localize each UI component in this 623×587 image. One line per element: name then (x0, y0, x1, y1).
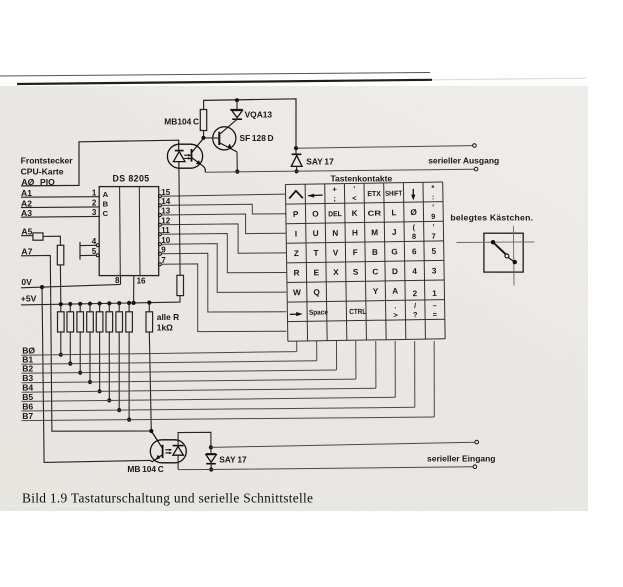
crossing row line (thin) (456, 241, 534, 244)
U2 pin 12 circle (158, 223, 161, 226)
wire U3 emitter to 0V (150, 460, 153, 462)
resistor R8 (1k pull-up) (128, 303, 130, 312)
wire matrix column 2 stub (316, 341, 318, 361)
wire Q1 emitter down (236, 152, 238, 172)
resistor R1 (1k pull-up) (60, 304, 62, 312)
wire U1 LED cathode down to R11 (179, 168, 180, 275)
IC U2 DS 8205 body (99, 187, 159, 276)
wire matrix column 4 stub (355, 341, 357, 379)
wire A5 box to resistor R9 (43, 236, 60, 245)
wire U2 pin 13 to matrix row 3 (161, 214, 286, 234)
terminal circle lower input (473, 465, 477, 469)
resistor R5 (1k pull-up) (99, 304, 101, 312)
wire emitter/output return line (lower) (205, 169, 474, 172)
wire bus B0 (22, 352, 297, 356)
junction +5V / R9 alle R (147, 301, 151, 305)
wire matrix column 5 stub (375, 341, 377, 388)
U2 pin 10 circle (158, 243, 161, 246)
node A0 PIO label (21, 177, 55, 187)
wire U2 pin 14 to matrix row 2 (161, 204, 286, 214)
belegtes Kaestchen box (484, 233, 523, 272)
wire matrix column 8 stub (433, 341, 435, 417)
wire matrix column 3 stub (335, 341, 337, 370)
key matrix cell symbols (291, 183, 437, 321)
wire matrix column 6 stub (394, 341, 396, 397)
junction R7/B6 (117, 408, 121, 412)
wire U2 pin 10 to matrix row 6 (161, 244, 286, 293)
label alle R 1kOhm (157, 312, 179, 332)
wire A3 to U2 pin 3 (21, 215, 99, 218)
wire R4 to B3 (89, 332, 91, 382)
wire 0V down to U3 emitter (42, 287, 150, 462)
U2 pin 11 circle (158, 233, 161, 236)
key switch contact symbol (491, 240, 517, 264)
junction +5V / R5 (98, 301, 102, 305)
junction D3 bottom (209, 467, 213, 471)
wire serieller Eingang (lower) (178, 467, 473, 470)
wire enable bracket (pins 4,5) (80, 242, 96, 260)
U2 pin 13 circle (158, 214, 161, 217)
wire U2 pin 15 to matrix row 1 (161, 194, 285, 196)
wire R2 to B1 (69, 332, 71, 364)
junction R6/B5 (107, 398, 111, 402)
jumper/contact box on A5 line (33, 233, 43, 240)
junction SAY17 top (294, 146, 298, 150)
resistor R4 (1k pull-up) (89, 304, 91, 312)
wire bus B2 (22, 370, 337, 373)
wire bus B5 (22, 397, 396, 401)
junction D3 top (209, 445, 213, 449)
wire matrix column 1 stub (296, 341, 298, 352)
wire matrix column 7 stub (414, 341, 416, 407)
U2 internal labels A B C (103, 190, 109, 218)
junction +5V / R4 (88, 302, 92, 306)
resistor R7 (1k pull-up) (118, 303, 120, 312)
wire +5V rail (21, 296, 180, 305)
wire A1 to U2 pin 1 (21, 196, 99, 199)
wire U3 LED anode loop to D3 (178, 432, 211, 447)
junction R10/base/opto-collector (201, 136, 205, 140)
crossing column line (thin) (512, 226, 515, 286)
junction R5/B4 (98, 389, 102, 393)
terminal circle lower output (474, 167, 478, 171)
resistor R "alle R 1k" (148, 303, 150, 312)
U3 coupling arrows (165, 449, 172, 455)
wire top rail (R10 top to SAY17) (204, 99, 296, 148)
wire bus B4 (22, 388, 376, 392)
wire U2 pin 11 to matrix row 5 (161, 234, 286, 273)
U2 pin 15 circle (158, 195, 161, 198)
junction emitter/output line (235, 170, 239, 174)
resistor R10 MB104C (200, 110, 206, 131)
wire bus B7 (22, 417, 435, 421)
wire bus B6 (22, 407, 415, 411)
page top edge rule (thin upper) (0, 73, 430, 77)
wire R1 to B0 (60, 332, 62, 355)
key matrix grid (Tastenkontakte) (285, 182, 445, 341)
key symbol caret (row1 col1) (289, 191, 303, 199)
wire A0/PIO to optocoupler U1 (21, 140, 179, 186)
optocoupler U3 MB104C body (150, 440, 186, 463)
key symbol down-arrow (row1 col7) (411, 189, 415, 201)
terminal circle upper input (475, 440, 479, 444)
wire bus B3 (22, 379, 356, 383)
wire U1 emitter to output line (203, 166, 206, 173)
wire VQA13 cathode to Q1 collector (220, 119, 237, 134)
wire alle-R to A7/U3 junction (149, 332, 151, 431)
resistor R9 (A5 pull) (57, 245, 64, 265)
wire U3 LED cathode down (177, 455, 179, 469)
junction top rail / VQA13 (235, 98, 239, 102)
diode D2 SAY17 (output) (291, 148, 302, 171)
U3 LED (173, 446, 184, 456)
U1 LED (173, 151, 185, 169)
junction R3/B2 (78, 371, 82, 375)
transistor Q1 SF128D (213, 127, 237, 152)
U2 pin 14 circle (158, 204, 161, 207)
wire R6 to B5 (108, 332, 110, 400)
wire R5 to B4 (99, 332, 101, 391)
key symbol right-arrow (row7 col1) (290, 312, 303, 316)
junction SAY17 bottom / output return (295, 169, 299, 173)
resistor R6 (1k pull-up) (108, 303, 110, 311)
terminal circle upper output (473, 144, 477, 148)
junction A7/alleR/U3 collector (149, 429, 153, 433)
junction +5V / R2 (68, 302, 72, 306)
junction +5V / R8 (127, 301, 131, 305)
key symbol left-arrow (row1 col2) (308, 194, 323, 198)
junction R2/B1 (68, 362, 72, 366)
U3 phototransistor (151, 431, 162, 462)
paper grain texture (0, 86, 588, 511)
wire bus B1 (22, 361, 317, 364)
wire serieller Ausgang (upper) (296, 146, 473, 149)
junction +5V / R3 (78, 302, 82, 306)
U1 phototransistor (192, 139, 204, 166)
junction +5V / R1 (59, 302, 63, 306)
wire R7 to B6 (118, 332, 120, 410)
U2 pin 16 stub to +5V (133, 276, 135, 303)
pin 5 circle (96, 254, 99, 257)
junction R1/B0 (59, 353, 63, 357)
wire R9 to +5V rail (59, 265, 61, 304)
junction +5V / R6 (107, 301, 111, 305)
junction +5V / U2 pin16 (132, 301, 136, 305)
resistor R11 (opto pull) (177, 275, 184, 295)
diode D3 SAY17 (input) (206, 447, 216, 469)
resistor R2 (1k pull-up) (69, 304, 71, 312)
U2 pin 9 circle (158, 252, 161, 255)
wire A5 stub underline (21, 235, 33, 237)
wire A7 down and right to U3 collector junction (21, 255, 151, 431)
junction +5V / R7 (117, 301, 121, 305)
wire U2 pin 9 to matrix row 7 (161, 253, 286, 312)
U1 coupling arrows (184, 154, 191, 160)
U2 pin 7 circle (158, 263, 161, 266)
wire R8 to B7 (128, 332, 130, 420)
wire 0V rail to U2 pin 8 (21, 284, 121, 287)
label Frontstecker CPU-Karte (21, 156, 74, 177)
U2 pin 8 stub to 0V (120, 276, 122, 285)
pin 4 circle (96, 244, 99, 247)
junction R4/B3 (88, 380, 92, 384)
junction 0V / down-wire (40, 285, 44, 289)
optocoupler U1 MB104C body (167, 144, 202, 168)
wire U2 pin 7 to matrix row 8 (161, 264, 286, 332)
wire base junction to Q1 base (204, 137, 220, 139)
wire U2 pin 12 to matrix row 4 (161, 224, 286, 253)
diode VQA13 (230, 100, 243, 119)
resistor R3 (1k pull-up) (79, 304, 81, 312)
wire A2 to U2 pin 2 (21, 206, 99, 209)
wire serieller Eingang (upper) (211, 442, 475, 447)
page top edge rule (thick lower) (17, 80, 432, 84)
junction R8/B7 (127, 418, 131, 422)
wire R10 bottom to base junction (203, 131, 205, 138)
wire R3 to B2 (79, 332, 81, 373)
